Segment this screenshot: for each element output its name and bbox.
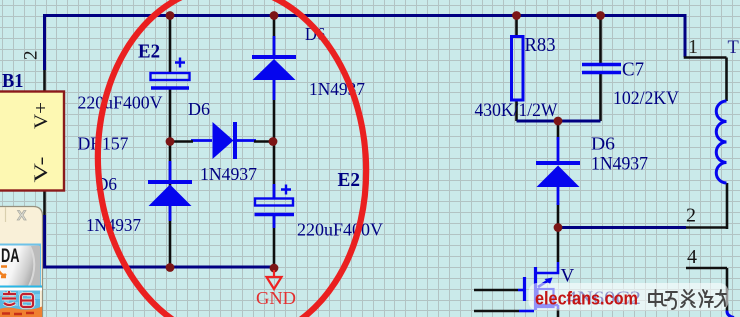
svg-text:D6: D6 bbox=[188, 99, 210, 119]
wire left column vertical bbox=[169, 16, 172, 268]
capacitor E2 (right, 220uF400V) bbox=[255, 184, 295, 228]
wire R83 leads bbox=[515, 16, 518, 122]
svg-text:220uF400V: 220uF400V bbox=[297, 220, 383, 240]
wire left drop to B1 pin2 bbox=[43, 14, 46, 70]
resistor R83 bbox=[512, 37, 524, 101]
svg-text:102/2KV: 102/2KV bbox=[613, 89, 680, 109]
diode D6 (right, 1N4937) bbox=[536, 137, 580, 205]
svg-text:4: 4 bbox=[687, 246, 697, 268]
svg-text:DB157: DB157 bbox=[78, 134, 129, 154]
diode D6 (middle column top, 1N4937) bbox=[252, 36, 296, 100]
svg-text:220uF400V: 220uF400V bbox=[78, 93, 163, 113]
transformer secondary coil start (bottom right corner) bbox=[727, 311, 734, 317]
svg-text:GND: GND bbox=[256, 288, 296, 308]
svg-text:1: 1 bbox=[688, 36, 698, 58]
DA banner box bbox=[0, 245, 40, 287]
junction C7 top bbox=[596, 11, 605, 20]
junction horizontal diode left bbox=[166, 137, 175, 146]
wire horizontal diode to junctions (black) bbox=[170, 140, 274, 143]
svg-text:E2: E2 bbox=[138, 41, 160, 63]
junction snubber top bbox=[554, 117, 563, 126]
junction GND node bbox=[270, 264, 279, 273]
junction R83 top bbox=[512, 11, 521, 20]
pin bottom of B1 (black stub) bbox=[43, 190, 46, 215]
capacitor C7 bbox=[582, 65, 621, 73]
annotation red ellipse bbox=[86, 0, 378, 317]
ad image bbox=[0, 286, 42, 288]
wire middle column vertical bbox=[273, 16, 276, 268]
MOSFET V (blue) bbox=[518, 262, 558, 311]
wire B1 bottom to ground rail bbox=[43, 215, 274, 267]
svg-text:1N4937: 1N4937 bbox=[200, 164, 257, 184]
junction snubber bottom bbox=[554, 223, 563, 232]
svg-text:elecfans.com: elecfans.com bbox=[535, 288, 638, 309]
pin 2 of B1 (black stub) bbox=[43, 70, 46, 91]
svg-text:E2: E2 bbox=[338, 170, 361, 191]
svg-text:DA: DA bbox=[1, 246, 20, 267]
junction top-left column bbox=[166, 11, 175, 20]
diode D6 (horizontal, 1N4937) bbox=[191, 122, 256, 159]
svg-text:V+: V+ bbox=[31, 102, 52, 129]
wire C7 leads bbox=[599, 16, 602, 122]
junction bottom-left column bbox=[166, 263, 175, 272]
diode D6 (bottom-left, 1N4937) bbox=[148, 161, 192, 221]
svg-text:V-: V- bbox=[31, 157, 52, 183]
ground GND symbol bbox=[267, 270, 282, 289]
svg-text:B1: B1 bbox=[2, 70, 24, 92]
component B1 (bridge rectifier body) bbox=[0, 92, 64, 191]
wire transformer pin 1 drop bbox=[684, 14, 687, 57]
svg-text:1N4937: 1N4937 bbox=[591, 155, 648, 175]
watermark elecfans.com bbox=[529, 283, 729, 311]
svg-text:D6: D6 bbox=[591, 134, 615, 154]
transformer pin 4 lead (black) bbox=[686, 268, 727, 311]
transformer pin 1 lead (black) bbox=[684, 58, 727, 102]
wire MOSFET source down bbox=[557, 308, 560, 317]
watermark chinese 电子发烧友 (stroke approximation) bbox=[649, 290, 726, 309]
plus sign of right E2 bbox=[281, 185, 291, 195]
svg-text:2: 2 bbox=[686, 205, 696, 227]
wire snubber column x=558 bbox=[557, 121, 560, 262]
svg-text:R83: R83 bbox=[525, 34, 556, 56]
transformer pin 2 lead (black) bbox=[686, 183, 727, 229]
plus sign of left E2 bbox=[175, 58, 185, 68]
wire R83-C7 bottom rail bbox=[517, 120, 601, 123]
wire to transformer pin 2 bbox=[558, 226, 686, 229]
popup ad panel (bottom-left) bbox=[0, 207, 43, 317]
svg-text:T: T bbox=[728, 38, 739, 58]
svg-text:X: X bbox=[17, 207, 27, 223]
svg-text:C7: C7 bbox=[622, 59, 644, 81]
wire top rail bbox=[44, 14, 686, 17]
wire MOSFET lower-left bbox=[474, 310, 519, 313]
junction top middle column bbox=[270, 11, 279, 20]
svg-text:2: 2 bbox=[21, 51, 42, 61]
transformer T primary coil bbox=[716, 101, 726, 183]
wire MOSFET gate (left) bbox=[474, 289, 518, 292]
junction horizontal diode right bbox=[269, 137, 278, 146]
capacitor E2 (left, 220uF400V) bbox=[151, 73, 190, 88]
svg-text:430K/1/2W: 430K/1/2W bbox=[475, 101, 559, 121]
